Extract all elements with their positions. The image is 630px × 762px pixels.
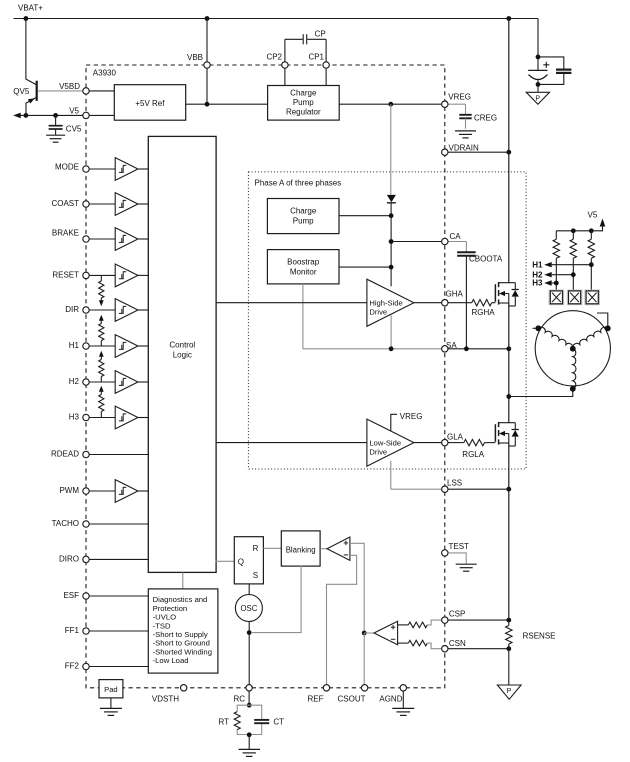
svg-text:Q: Q — [238, 558, 244, 567]
svg-text:LSS: LSS — [447, 478, 462, 487]
label VREG — [448, 93, 471, 102]
label COAST — [51, 199, 79, 208]
pin H1 — [83, 343, 89, 349]
pin COAST — [83, 201, 89, 207]
block RS latch — [234, 537, 263, 584]
op-amp Low-Side Drive — [367, 419, 414, 466]
wire logic to high-side drive — [216, 302, 367, 304]
pin BRAKE — [83, 236, 89, 242]
pin FF2 — [83, 663, 89, 669]
svg-text:Monitor: Monitor — [290, 268, 317, 277]
diode phase bootstrap — [387, 195, 396, 203]
svg-text:AGND: AGND — [379, 695, 402, 704]
wire VBAT to bulk caps — [538, 19, 564, 85]
svg-text:High-Side: High-Side — [369, 299, 402, 308]
wire logic to latch Q — [216, 560, 236, 562]
label TEST — [449, 542, 470, 551]
diode high-side body — [509, 283, 519, 306]
wire latch R to blanking — [263, 547, 281, 549]
svg-text:CSP: CSP — [449, 609, 465, 618]
svg-text:S: S — [253, 571, 258, 580]
wire H2 pin to buffer — [86, 381, 115, 383]
pin RESET — [83, 272, 89, 278]
diode low-side body — [509, 423, 519, 446]
svg-text:P: P — [535, 95, 540, 102]
wire DIRO pin to logic — [86, 558, 149, 560]
wire OSC to RC pin — [248, 622, 250, 685]
pin GLA — [442, 439, 448, 445]
resistor hall pull-up 1 — [553, 231, 559, 290]
label SA — [446, 341, 457, 350]
label Phase A of three phases — [255, 179, 342, 188]
pin DIRO — [83, 556, 89, 562]
svg-text:TEST: TEST — [449, 542, 470, 551]
label GHA — [446, 290, 464, 299]
wire drain bus upper — [508, 19, 510, 283]
resistor H3 pull-up with arrow — [99, 386, 104, 417]
svg-text:-Short to Supply: -Short to Supply — [153, 630, 208, 639]
svg-text:RC: RC — [233, 695, 245, 704]
resistor sense minus to CSN — [398, 640, 442, 648]
pin RC — [246, 685, 252, 691]
svg-text:CSN: CSN — [449, 639, 466, 648]
pin VDRAIN — [442, 149, 448, 155]
svg-text:CREG: CREG — [474, 114, 497, 123]
wire COAST pin to buffer — [86, 203, 115, 205]
label RESET — [52, 271, 79, 280]
wire H3 pin to buffer — [86, 417, 115, 419]
label H3 — [532, 279, 543, 288]
wire TACHO pin to logic — [86, 523, 149, 525]
label AGND — [379, 695, 402, 704]
svg-text:Pad: Pad — [104, 685, 118, 694]
wire H3 with arrow — [544, 280, 558, 285]
wire QV5 collector — [26, 19, 36, 85]
svg-text:Phase A of three phases: Phase A of three phases — [255, 179, 342, 188]
transistor QV5 body bar — [36, 81, 38, 101]
junction SA/phase vertical — [389, 346, 394, 351]
motor winding C — [573, 349, 576, 389]
svg-text:VBB: VBB — [187, 53, 203, 62]
svg-text:V5: V5 — [588, 211, 598, 220]
resistor RGHA — [448, 300, 495, 306]
wire motor to phase bus — [509, 386, 576, 397]
wire VDRAIN to drain bus — [448, 151, 509, 153]
svg-text:Logic: Logic — [173, 351, 192, 360]
wire V5BD pin to +5V Ref — [86, 90, 114, 92]
wire VBAT+ rail — [14, 18, 539, 20]
pin TACHO — [83, 521, 89, 527]
svg-text:RT: RT — [218, 717, 229, 726]
wire H2 with arrow — [544, 272, 575, 277]
svg-text:RDEAD: RDEAD — [51, 450, 79, 459]
ground below CREG — [455, 131, 476, 138]
resistor RSENSE — [506, 620, 512, 649]
label A3930 — [93, 69, 117, 78]
wire DIR buffer to logic — [138, 309, 149, 311]
label CT — [273, 717, 284, 726]
svg-text:Blanking: Blanking — [286, 545, 316, 554]
svg-text:Pump: Pump — [293, 217, 314, 226]
label RGLA — [462, 450, 484, 459]
svg-text:RGHA: RGHA — [472, 308, 496, 317]
schmitt buffer H2 — [115, 371, 138, 394]
svg-text:Pump: Pump — [293, 98, 314, 107]
svg-text:Diagnostics and: Diagnostics and — [153, 595, 208, 604]
label RSENSE — [523, 632, 556, 641]
svg-text:GLA: GLA — [447, 432, 464, 441]
wire charge pump output — [339, 215, 391, 217]
junction hall bus R3 — [589, 228, 594, 233]
wire comparator minus to REF — [327, 555, 357, 684]
junction VDRAIN/drain bus — [506, 150, 511, 155]
pin REF — [323, 685, 329, 691]
label RT — [218, 717, 229, 726]
junction RC network bottom — [247, 732, 252, 737]
junction motor branch — [506, 394, 511, 399]
svg-text:V5: V5 — [69, 106, 79, 115]
svg-text:V5BD: V5BD — [59, 82, 80, 91]
wire logic to diagnostics — [182, 572, 184, 588]
svg-text:-UVLO: -UVLO — [153, 613, 177, 622]
svg-text:P: P — [507, 688, 512, 695]
wire RDEAD pin to logic — [86, 454, 149, 456]
junction bulk cap top — [536, 55, 541, 60]
label CP2 — [266, 52, 282, 61]
capacitor electrolytic bulk — [528, 57, 549, 85]
wire H1 buffer to logic — [138, 345, 149, 347]
svg-text:H1: H1 — [532, 260, 543, 269]
pin CSOUT — [361, 685, 367, 691]
motor winding B — [573, 327, 608, 349]
wire V5 line with arrow — [13, 113, 86, 119]
transistor high-side MOSFET — [495, 282, 515, 305]
resistor hall pull-up 3 — [588, 231, 594, 290]
svg-text:RGLA: RGLA — [462, 450, 484, 459]
svg-text:Drive: Drive — [369, 448, 387, 457]
capacitor CT — [254, 720, 269, 723]
wire comparator plus to CSOUT net — [350, 543, 364, 633]
pin RDEAD — [83, 451, 89, 457]
pin CSN — [442, 646, 448, 652]
pin AGND — [400, 685, 406, 691]
label H2 — [532, 270, 543, 279]
pin FF1 — [83, 628, 89, 634]
svg-text:A3930: A3930 — [93, 69, 117, 78]
svg-text:CA: CA — [450, 232, 462, 241]
wire CSP to RSENSE — [448, 619, 509, 621]
oscillator OSC — [235, 595, 262, 622]
ground below Pad — [100, 698, 122, 716]
label RC — [233, 695, 245, 704]
label VDSTH — [152, 695, 179, 704]
svg-text:H3: H3 — [532, 279, 543, 288]
junction VBAT/drain bus — [506, 16, 511, 21]
resistor RT — [234, 712, 240, 730]
label FF1 — [65, 626, 80, 635]
svg-text:+5V Ref: +5V Ref — [135, 99, 165, 108]
junction bootstrap/phase vertical — [389, 265, 394, 270]
junction hall bus R2 — [571, 228, 576, 233]
svg-text:BRAKE: BRAKE — [52, 229, 79, 238]
capacitor CP — [285, 34, 326, 44]
wire H3 buffer to logic — [138, 417, 149, 419]
hall sensors — [549, 290, 599, 305]
pin TEST — [442, 550, 448, 556]
wire MODE pin to buffer — [86, 168, 115, 170]
wire DIR pin to buffer — [86, 309, 115, 311]
label V5 hall supply — [588, 211, 598, 220]
wire sense comparator output — [364, 632, 374, 634]
schmitt buffer MODE — [115, 158, 138, 181]
block Control Logic — [148, 136, 216, 572]
wire SA to source bus — [448, 348, 509, 350]
wire FF2 pin to diagnostics — [86, 666, 149, 668]
wire to power ground P — [537, 84, 539, 92]
label CBOOTA — [469, 255, 503, 264]
pin V5 — [83, 112, 89, 118]
wire QV5 base — [38, 90, 86, 92]
wire latch S to OSC — [248, 584, 250, 595]
motor stator circle — [535, 311, 610, 386]
label CSP — [449, 609, 465, 618]
svg-text:VREG: VREG — [400, 412, 423, 421]
resistor H2 pull-up with arrow — [99, 351, 104, 382]
svg-text:H3: H3 — [69, 413, 80, 422]
label H2 — [69, 377, 80, 386]
resistor hall pull-up 2 — [570, 231, 576, 290]
wire RESET buffer to logic — [138, 274, 149, 276]
wire phase output bus — [508, 303, 510, 423]
wire PWM buffer to logic — [138, 490, 149, 492]
label DIRO — [59, 555, 79, 564]
wire regulator to VREG pin — [339, 103, 442, 105]
wire TEST to ground — [448, 553, 466, 564]
label MODE — [55, 163, 79, 172]
wire RT CT to ground — [248, 735, 250, 749]
svg-text:VDSTH: VDSTH — [152, 695, 179, 704]
junction VBB/regulator line — [205, 102, 210, 107]
junction SA/source bus — [506, 346, 511, 351]
svg-text:GHA: GHA — [446, 290, 464, 299]
ground below RC network — [238, 749, 260, 756]
motor terminal B bracket — [597, 313, 611, 331]
svg-text:-Short to Ground: -Short to Ground — [153, 639, 210, 648]
label LSS — [447, 478, 462, 487]
svg-text:DIR: DIR — [65, 305, 79, 314]
wire CSN to RSENSE — [448, 648, 509, 650]
pin CP1 — [323, 62, 329, 68]
junction charge pump/phase vertical — [389, 213, 394, 218]
svg-text:CP: CP — [315, 29, 326, 38]
wire CA line — [391, 241, 442, 243]
svg-text:Low-Side: Low-Side — [369, 438, 401, 447]
wire CP1 vertical — [325, 39, 327, 85]
svg-text:OSC: OSC — [240, 604, 257, 613]
svg-text:Regulator: Regulator — [286, 107, 321, 116]
wire VBB vertical — [206, 19, 208, 105]
junction VREG/phase branch — [388, 102, 393, 107]
block +5V Ref — [114, 85, 185, 121]
wire logic to low-side drive — [216, 442, 367, 444]
svg-text:DIRO: DIRO — [59, 555, 79, 564]
svg-text:CP1: CP1 — [308, 52, 324, 61]
schmitt buffer PWM — [115, 480, 138, 503]
wire MODE buffer to logic — [138, 168, 149, 170]
pin PWM — [83, 488, 89, 494]
label V5BD — [59, 82, 80, 91]
wire VREG stub at low-side drive — [391, 414, 397, 430]
junction V5/QV5 emitter — [24, 113, 29, 118]
wire VREG to phase diode — [390, 104, 392, 194]
svg-text:-TSD: -TSD — [153, 621, 171, 630]
wire H1 with arrow — [544, 262, 593, 267]
wire BRAKE buffer to logic — [138, 238, 149, 240]
svg-text:RESET: RESET — [52, 271, 79, 280]
label H1 — [532, 260, 543, 269]
resistor H1 pull-up with arrow — [99, 315, 104, 346]
junction OSC/blanking node — [247, 630, 252, 635]
label VREG at low-side drive — [400, 412, 423, 421]
svg-text:MODE: MODE — [55, 163, 79, 172]
capacitor CV5 — [49, 115, 63, 134]
label CA — [450, 232, 462, 241]
label ESF — [63, 591, 79, 600]
junction VBAT/VBB — [205, 16, 210, 21]
pin CSP — [442, 617, 448, 623]
svg-text:-Shorted Winding: -Shorted Winding — [153, 647, 212, 656]
junction VBAT/QV5 — [24, 16, 29, 21]
wire ESF pin to diagnostics — [86, 595, 149, 597]
wire bootstrap monitor to SA — [302, 284, 304, 349]
label FF2 — [65, 662, 80, 671]
svg-text:TACHO: TACHO — [52, 519, 79, 528]
svg-text:H2: H2 — [69, 377, 80, 386]
wire CP2 vertical — [284, 39, 286, 85]
schmitt buffer H3 — [115, 406, 138, 429]
wire RC pin to network — [248, 691, 250, 705]
pin VBB — [204, 62, 210, 68]
pin CP2 — [282, 62, 288, 68]
svg-text:VREG: VREG — [448, 93, 471, 102]
ground below AGND — [392, 691, 414, 716]
svg-text:H1: H1 — [69, 341, 80, 350]
resistor RESET pull-down with arrow — [99, 275, 104, 306]
block Charge Pump Regulator — [268, 86, 340, 121]
svg-text:RSENSE: RSENSE — [523, 632, 556, 641]
wire source bus — [508, 443, 510, 620]
capacitor CREG — [448, 104, 472, 129]
svg-text:VDRAIN: VDRAIN — [449, 143, 479, 152]
op-amp blanking comparator — [327, 537, 350, 560]
label TACHO — [52, 519, 79, 528]
svg-text:CP2: CP2 — [266, 52, 282, 61]
label QV5 — [13, 87, 30, 96]
label BRAKE — [52, 229, 79, 238]
svg-text:CSOUT: CSOUT — [338, 695, 366, 704]
label H1 — [69, 341, 80, 350]
pin VREG — [442, 101, 448, 107]
motor center junction — [570, 346, 576, 352]
svg-text:-Low Load: -Low Load — [153, 656, 189, 665]
schmitt buffer DIR — [115, 299, 138, 322]
label RDEAD — [51, 450, 79, 459]
IC A3930 dashed outline — [86, 65, 445, 688]
label VBB — [187, 53, 203, 62]
schmitt buffer BRAKE — [115, 228, 138, 251]
junction bulk cap bottom — [536, 82, 541, 87]
junction LSS/source bus — [506, 487, 511, 492]
svg-text:CT: CT — [273, 717, 284, 726]
wire phase vertical — [390, 203, 392, 348]
svg-text:Protection: Protection — [153, 604, 188, 613]
pin MODE — [83, 166, 89, 172]
ground at TEST — [456, 564, 477, 571]
wire LSS to source bus — [448, 488, 509, 490]
schmitt buffer H1 — [115, 335, 138, 358]
label RGHA — [472, 308, 496, 317]
label CV5 — [66, 124, 82, 133]
svg-text:Boostrap: Boostrap — [287, 258, 320, 267]
pin VDSTH — [181, 685, 187, 691]
block Diagnostics and Protection — [148, 589, 218, 673]
svg-text:VBAT+: VBAT+ — [18, 4, 43, 13]
net label VBAT+ — [18, 4, 43, 13]
junction CA/phase vertical — [389, 239, 394, 244]
label CSOUT — [338, 695, 366, 704]
svg-text:COAST: COAST — [51, 199, 79, 208]
wire COAST buffer to logic — [138, 203, 149, 205]
block Pad — [99, 680, 123, 698]
QV5 emitter arrow — [28, 98, 35, 103]
resistor sense plus to CSP — [398, 620, 442, 628]
label VDRAIN — [449, 143, 479, 152]
block Charge Pump — [267, 199, 339, 234]
junction V5/CV5 — [53, 113, 58, 118]
power ground P bottom — [497, 685, 521, 699]
pin LSS — [442, 486, 448, 492]
wire blanking to comparator — [321, 548, 327, 550]
svg-text:CV5: CV5 — [66, 124, 82, 133]
label V5 pin — [69, 106, 79, 115]
label CP — [315, 29, 326, 38]
wire QV5 emitter — [26, 98, 36, 116]
svg-text:QV5: QV5 — [13, 87, 30, 96]
pin CA — [442, 238, 448, 244]
wire RESET pin to buffer — [86, 274, 115, 276]
svg-text:ESF: ESF — [63, 591, 79, 600]
wire high-side drive output — [414, 302, 442, 304]
capacitor CBOOTA — [448, 242, 476, 349]
label DIR — [65, 305, 79, 314]
wire H1 pin to buffer — [86, 345, 115, 347]
schmitt buffer RESET — [115, 264, 138, 287]
wire CSOUT vertical — [363, 633, 365, 685]
label GLA — [447, 432, 464, 441]
label CP1 — [308, 52, 324, 61]
junction CSOUT/comparator output — [362, 631, 367, 636]
label H3 — [69, 413, 80, 422]
wire H2 buffer to logic — [138, 381, 149, 383]
label CREG — [474, 114, 497, 123]
op-amp High-Side Drive — [367, 279, 414, 326]
junction RC network top — [247, 703, 252, 708]
wire RSENSE to power ground — [508, 649, 510, 685]
wire FF1 pin to diagnostics — [86, 630, 149, 632]
wire bootstrap monitor output — [339, 266, 391, 268]
ground below CV5 — [46, 135, 65, 142]
svg-text:Control: Control — [169, 341, 195, 350]
